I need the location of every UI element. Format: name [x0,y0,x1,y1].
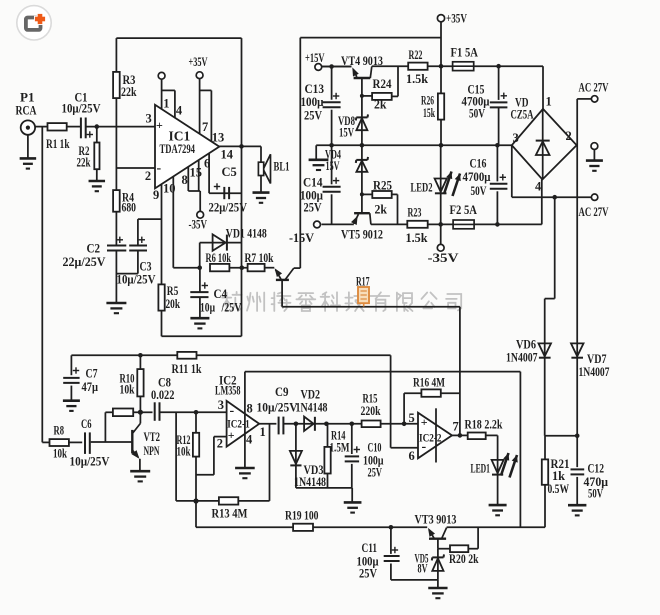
svg-text:10k: 10k [177,445,191,459]
svg-text:20k: 20k [166,297,181,311]
fuse F2 5A [453,220,474,229]
watermark text [222,292,242,311]
wire IC1 output pin 14 [219,145,261,147]
svg-text:-: - [157,161,162,176]
svg-text:C10: C10 [368,441,382,455]
terminal AC 27V lower [591,194,597,200]
svg-text:10μ/25V: 10μ/25V [62,102,101,116]
resistor R1 [48,123,67,130]
wire VD6 to R21 and VD7 [545,435,578,437]
svg-text:2: 2 [145,169,151,183]
wire IC2-1 output [259,423,276,425]
svg-text:-15V: -15V [289,231,314,245]
svg-text:3: 3 [218,398,224,412]
svg-text:7: 7 [202,120,208,134]
svg-text:4: 4 [246,433,253,447]
svg-text:15V: 15V [339,126,354,140]
svg-text:C13: C13 [305,82,325,96]
wire comparator output riser [459,307,461,436]
svg-text:22k: 22k [121,85,137,99]
resistor R10 [138,353,143,358]
svg-text:1N4007: 1N4007 [579,365,610,379]
resistor R7 [229,267,247,269]
svg-text:+15V: +15V [305,51,325,65]
svg-text:+35V: +35V [189,55,208,69]
svg-text:+35V: +35V [446,12,467,26]
svg-text:2: 2 [217,437,223,451]
resistor R11 1k [177,352,196,359]
terminal center tap ground [591,143,598,150]
svg-text:15k: 15k [423,106,435,120]
wire output down to mute network [241,146,243,336]
transistor VT1 [275,268,282,277]
wire feedback top [116,37,241,39]
svg-text:NPN: NPN [144,444,160,458]
svg-text:8V: 8V [418,562,428,576]
wire bridge pin3 to AC lower [511,145,513,197]
resistor R3 [113,72,120,98]
svg-text:50V: 50V [471,184,487,198]
svg-text:220k: 220k [361,404,381,418]
resistor R15 220k [362,421,381,428]
wire top supply to regulator [300,37,441,39]
svg-text:C6: C6 [81,417,92,431]
svg-text:1N4148: 1N4148 [296,401,328,415]
svg-text:C12: C12 [588,462,605,476]
svg-text:R7 10k: R7 10k [245,251,274,265]
svg-text:6: 6 [204,157,210,171]
svg-text:BL1: BL1 [274,160,290,174]
capacitor C3 [129,245,147,247]
svg-text:RCA: RCA [16,104,37,118]
svg-text:22μ/25V: 22μ/25V [63,255,106,269]
svg-text:P1: P1 [20,91,35,105]
svg-text:7: 7 [453,420,459,434]
diode VD1 4148 [199,243,201,268]
svg-text:AC 27V: AC 27V [579,205,609,219]
svg-text:100μ: 100μ [301,95,324,109]
svg-text:4: 4 [535,180,542,194]
ground at P1 [20,157,37,160]
capacitor C9 [278,417,280,435]
svg-text:-: - [230,403,235,418]
svg-text:25V: 25V [304,109,322,123]
resistor R22 [408,63,427,70]
svg-text:IC2-2: IC2-2 [419,433,442,445]
wire +35V rail [372,65,408,67]
speaker BL1 [260,146,262,162]
wire IC1 pin 6 bootstrap [208,154,210,194]
svg-text:680: 680 [122,201,137,215]
svg-text:R20 2k: R20 2k [449,552,479,566]
svg-text:14: 14 [221,148,234,162]
svg-text:4: 4 [176,104,183,118]
wire C11 to VD5 ground [391,579,438,581]
svg-text:8: 8 [247,402,253,416]
wire IC1 pin 10 [172,177,174,268]
wire input branch down to R8 [41,127,43,443]
resistor R19 100 [293,524,313,531]
wire R12 down to R19 rail [195,501,197,527]
svg-text:1.5M: 1.5M [330,441,350,455]
svg-text:1: 1 [546,95,552,109]
resistor R24 [362,95,372,97]
svg-text:0.022: 0.022 [151,388,175,402]
terminal -35V of IC1 [197,211,204,218]
resistor R12 [194,410,199,415]
capacitor C7 [70,355,72,375]
resistor R5 [158,284,164,310]
op-amp IC2-2 [418,413,452,459]
svg-text:F2 5A: F2 5A [450,203,478,217]
zener diode VD4 15V [356,159,367,161]
svg-text:VT3 9013: VT3 9013 [415,513,457,527]
terminal +35V [437,15,444,22]
svg-text:R22: R22 [409,48,423,62]
ground on mid rail [309,159,329,162]
svg-text:0.5W: 0.5W [548,482,570,496]
svg-text:2k: 2k [375,203,388,217]
svg-text:10μ: 10μ [200,301,215,315]
svg-text:1N4148: 1N4148 [294,475,326,489]
svg-text:50V: 50V [588,487,603,501]
wire R1 to C1 [67,126,80,128]
svg-text:VT2: VT2 [144,430,161,444]
wire VT1 collector to +35V rail [299,38,301,269]
svg-text:CZ5A: CZ5A [511,108,534,122]
ground below LED1 [489,504,507,507]
svg-text:R11 1k: R11 1k [172,362,202,376]
svg-text:50V: 50V [469,107,485,121]
zener diode VD5 8V [437,549,439,580]
resistor R2 [96,127,98,143]
ground below C12 [568,504,586,507]
svg-text:/25V: /25V [221,301,242,315]
wire emitter rail to R19 [196,526,293,528]
svg-text:R18 2.2k: R18 2.2k [465,418,503,432]
resistor R18 2.2k [468,433,486,440]
capacitor C11 [389,525,394,530]
transistor VT2 NPN [91,441,133,443]
resistor R21 [544,436,546,460]
capacitor C13 [331,67,333,100]
wire output feedback riser [241,38,243,146]
svg-text:10: 10 [163,182,176,196]
capacitor C8 [140,411,152,413]
wire R22 to F1 [428,65,453,67]
svg-text:VD7: VD7 [587,352,607,366]
svg-text:8: 8 [182,173,188,187]
diode VD6 1N4007 [539,343,552,356]
ground below BL1 [253,191,270,194]
svg-text:C3: C3 [140,260,152,274]
svg-text:C16: C16 [470,157,487,171]
svg-text:25V: 25V [304,201,322,215]
svg-text:R5: R5 [167,284,179,298]
wire R4 to C2 [115,212,117,246]
svg-text:3: 3 [146,112,152,126]
ground below C10 [351,488,353,502]
svg-text:R13 4M: R13 4M [212,507,248,521]
fuse F1 5A [453,62,474,71]
svg-text:C2: C2 [87,242,101,256]
svg-text:2: 2 [566,129,572,143]
svg-text:VD1 4148: VD1 4148 [226,227,267,241]
resistor R20 2k [438,548,450,550]
terminal -35V [440,224,442,244]
svg-text:+: + [156,118,163,132]
svg-text:C11: C11 [362,541,378,555]
svg-text:R6 10k: R6 10k [206,251,232,265]
capacitor C2 [107,245,126,247]
svg-text:10k: 10k [120,383,135,397]
wire IC1 pin 9 [161,184,163,284]
resistor R6 [210,264,229,271]
svg-text:LED2: LED2 [411,181,433,195]
svg-text:C9: C9 [275,385,289,399]
ground below R2 [89,180,106,183]
capacitor C12 [571,468,585,470]
wire IC1 pin2 inverting [116,167,155,169]
wire preamp top rail [71,354,390,356]
svg-text:6: 6 [409,449,415,463]
connector P1 RCA jack [21,120,35,134]
capacitor C10 [350,422,355,427]
svg-text:10μ/25V: 10μ/25V [70,455,110,469]
svg-text:F1 5A: F1 5A [451,46,479,60]
ground below C4 [190,317,209,320]
capacitor C16 [495,143,500,148]
svg-text:15V: 15V [326,159,340,173]
svg-text:25V: 25V [368,466,383,480]
svg-text:3: 3 [513,131,519,145]
capacitor C6 [84,432,86,454]
svg-text:4700μ: 4700μ [463,170,491,184]
terminal -15V [314,221,321,228]
wire IC2 pin8 pin4 and ground [244,372,246,468]
svg-text:VD2: VD2 [301,388,321,402]
svg-text:5: 5 [409,411,415,425]
svg-text:-35V: -35V [189,218,208,232]
svg-text:C7: C7 [86,367,98,381]
wire rail corner to IC2 pin6 [390,355,392,447]
wire C2 to ground [115,251,117,303]
wire AC to VD6 [554,197,556,298]
wire supply rail to VT3 collector [519,372,521,528]
svg-text:1N4007: 1N4007 [506,351,538,365]
wire P1 to R1 [35,126,47,128]
zener diode VD8 15V [356,116,367,118]
svg-text:2k: 2k [374,98,387,112]
wire -35V rail [371,223,407,225]
diode VD3 1N4148 [295,424,297,488]
bridge rectifier VD CZ5A [512,109,577,180]
capacitor C14 [331,145,333,184]
svg-text:10μ/25V: 10μ/25V [257,401,298,415]
op-amp IC1 TDA7294 triangle [155,105,219,189]
wire bridge pin2 riser [576,99,578,344]
resistor R23 [407,221,427,228]
wire F2 to bridge pin4 [474,223,542,225]
resistor R25 [362,193,372,195]
wire C3 top to pin9 line [137,219,139,246]
wire IC2-1 pin2 non-inverting [214,436,227,438]
svg-text:R23: R23 [408,206,422,220]
wire R3 to inverting input and R4 [115,98,117,190]
ground below C2 [106,302,126,305]
ground below C7 [63,399,80,402]
site icon [17,6,51,40]
diode VD7 1N4007 [576,343,578,467]
ground below VT2 [130,470,150,473]
wire R5 bottom to output branch [161,311,163,337]
svg-text:1k: 1k [552,469,565,483]
svg-text:+: + [421,415,428,429]
resistor R13 4M feedback [175,412,177,501]
resistor VT2 bias feedback [105,411,113,413]
svg-text:TDA7294: TDA7294 [160,142,196,156]
wires IC1 pins 8 and 15 to -35V [187,167,189,192]
resistor R4 [113,190,120,212]
wire C1 to IC1 pin3 [86,126,155,128]
svg-text:R25: R25 [373,179,392,193]
svg-text:25V: 25V [359,567,377,581]
terminal pins 1 and 4 of IC1 [158,72,165,79]
wire VT1 base to comparator output [282,306,460,308]
capacitor C15 [496,64,501,69]
svg-text:VD6: VD6 [516,338,536,352]
resistor R8 [42,441,49,443]
svg-text:1: 1 [163,97,169,111]
svg-text:47μ: 47μ [82,380,99,394]
svg-text:1.5k: 1.5k [406,231,428,245]
svg-text:R8: R8 [54,424,65,438]
wire top to R3 [115,38,117,72]
svg-text:IC2-1: IC2-1 [227,418,250,430]
svg-text:15: 15 [190,166,203,180]
svg-text:R16 4M: R16 4M [413,376,445,390]
svg-text:VT5 9012: VT5 9012 [341,228,383,242]
svg-text:1: 1 [260,425,266,439]
diode VD2 1N4148 [304,423,315,425]
led LED2 [439,143,444,148]
svg-text:C4: C4 [214,287,228,301]
svg-text:9: 9 [153,188,159,202]
wire mid ground rail [316,144,512,146]
resistor R14 1.5M [327,424,329,447]
capacitor C5 [209,192,241,194]
svg-text:10k: 10k [53,447,67,461]
svg-text:R1 1k: R1 1k [46,137,70,151]
svg-text:-35V: -35V [428,251,459,265]
svg-text:AC 27V: AC 27V [579,81,609,95]
svg-text:R24: R24 [373,77,393,91]
svg-text:R19 100: R19 100 [285,509,319,523]
resistor R26 [440,66,442,93]
resistor R16 4M feedback [403,393,405,424]
ground below VD5 [428,587,447,590]
svg-text:10μ/25V: 10μ/25V [117,273,156,287]
svg-text:13: 13 [212,131,225,145]
wire F1 to bridge pin1 [474,65,543,67]
svg-text:LED1: LED1 [471,462,491,476]
wire op-amp supply rail [245,371,521,373]
wire IC2-2 output [452,434,468,436]
capacitor C1 [80,118,82,139]
svg-text:22k: 22k [77,156,91,170]
wire IC1 pin10 to C4 and R6 [173,267,199,269]
svg-text:LM358: LM358 [215,384,241,398]
wire C3 bottom to C2 line [137,251,139,274]
svg-text:C5: C5 [222,165,237,179]
led LED1 [497,435,499,504]
svg-text:1.5k: 1.5k [406,72,428,86]
svg-text:C14: C14 [303,176,323,190]
wire VD3 to ground rail [296,487,352,489]
capacitor C4 [199,268,201,292]
wire VT3 collector rail [447,526,545,528]
